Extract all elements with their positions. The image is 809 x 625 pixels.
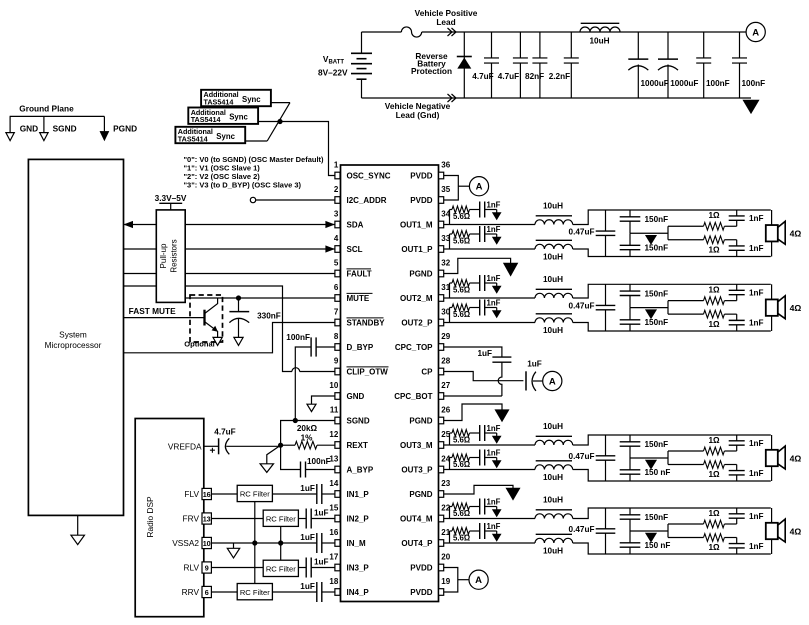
- ground SGND symbol: [43, 116, 45, 132]
- svg-text:1nF: 1nF: [749, 439, 764, 448]
- capacitor 4.7uF VREFDA: [204, 445, 219, 447]
- svg-text:10: 10: [203, 539, 211, 548]
- ground GND symbol: [9, 116, 11, 132]
- svg-text:5: 5: [334, 258, 339, 267]
- capacitor 82nF input: [539, 32, 541, 58]
- pin 32 PGND: [439, 270, 444, 277]
- wire OUT2_P to filter rail: [573, 323, 771, 332]
- pin 17 IN3_P: [335, 564, 340, 571]
- resistor 1ohm bottom channel 4: [667, 524, 669, 538]
- svg-text:10: 10: [329, 381, 338, 390]
- svg-text:VREFDA: VREFDA: [168, 441, 202, 451]
- svg-text:CPC_TOP: CPC_TOP: [395, 343, 433, 352]
- svg-text:OUT1_P: OUT1_P: [401, 245, 433, 254]
- svg-text:5.6Ω: 5.6Ω: [453, 460, 470, 469]
- capacitor 150nF bottom channel 4: [629, 531, 631, 543]
- capacitor 100nF bulk 3: [703, 32, 705, 58]
- pin 7 STANDBY: [335, 319, 340, 326]
- capacitor 1nF bottom channel 2: [736, 314, 738, 320]
- svg-text:1nF: 1nF: [749, 288, 764, 297]
- svg-text:FAULT: FAULT: [347, 270, 372, 279]
- svg-text:IN2_P: IN2_P: [347, 515, 370, 524]
- capacitor 1nF bottom channel 1: [736, 240, 738, 246]
- pin 26 PGND: [439, 417, 444, 424]
- svg-text:Pull-up: Pull-up: [159, 243, 168, 268]
- svg-text:IN4_P: IN4_P: [347, 588, 370, 597]
- additional TAS5414 box 1: [201, 90, 271, 106]
- pin 4 SCL: [335, 246, 340, 253]
- svg-text:4.7uF: 4.7uF: [214, 428, 235, 437]
- wire OUT4_M to inductor: [444, 518, 535, 520]
- svg-text:1nF: 1nF: [749, 469, 764, 478]
- svg-text:Sync: Sync: [242, 95, 261, 104]
- capacitor 0.47uF channel 2: [605, 284, 607, 305]
- svg-text:IN_M: IN_M: [347, 539, 366, 548]
- capacitor 150nF bottom channel 1: [629, 233, 631, 245]
- svg-text:7: 7: [334, 307, 339, 316]
- svg-text:150nF: 150nF: [645, 318, 669, 327]
- resistor 1ohm top channel 2: [668, 300, 704, 302]
- svg-text:3: 3: [334, 209, 339, 218]
- capacitor 150nF top channel 2: [629, 284, 631, 291]
- wire OUT1_M to filter rail: [573, 210, 771, 225]
- wire mid node channel 3: [630, 457, 668, 459]
- wire sync box2 to OSC_SYNC pin 1: [258, 122, 335, 176]
- resistor 5.6ohm zobel OUT1_M: [449, 210, 451, 225]
- resistor 5.6ohm zobel OUT4_P: [449, 531, 451, 543]
- svg-text:OUT4_P: OUT4_P: [401, 539, 433, 548]
- capacitor 1nF zobel OUT1_P: [470, 233, 480, 235]
- svg-text:6: 6: [205, 588, 209, 597]
- svg-text:4.7uF: 4.7uF: [472, 72, 493, 81]
- junction sync node: [277, 119, 282, 124]
- svg-text:Radio DSP: Radio DSP: [145, 496, 155, 538]
- additional TAS5414 box 2: [188, 108, 258, 124]
- capacitor 1nF zobel OUT4_P: [470, 530, 480, 532]
- capacitor 1nF zobel OUT2_M: [470, 282, 480, 284]
- svg-text:TAS5414: TAS5414: [204, 97, 234, 106]
- svg-text:SGND: SGND: [53, 123, 77, 133]
- battery VBATT: [361, 32, 363, 53]
- ground zobel OUT3_P: [496, 458, 498, 461]
- junction D_BYP cap to SGND: [293, 418, 298, 423]
- wire OUT3_M to filter rail: [573, 435, 771, 445]
- capacitor 1nF zobel OUT1_M: [470, 209, 480, 211]
- svg-text:A: A: [475, 575, 482, 586]
- svg-text:10uH: 10uH: [543, 202, 563, 211]
- pin 29 CPC_TOP: [439, 344, 444, 351]
- svg-text:Optional: Optional: [184, 340, 214, 349]
- ground zobel OUT1_P: [496, 234, 498, 237]
- svg-text:1000uF: 1000uF: [670, 79, 698, 88]
- wire FAST MUTE from microprocessor: [124, 317, 205, 319]
- pin 19 PVDD: [439, 589, 444, 596]
- svg-text:1nF: 1nF: [749, 512, 764, 521]
- svg-text:4Ω: 4Ω: [790, 453, 802, 463]
- radio DSP pin FRV 13: [202, 513, 211, 524]
- pin 5 FAULT: [335, 270, 340, 277]
- pin 11 SGND: [335, 417, 340, 424]
- ground mid node channel 1: [646, 235, 657, 244]
- inductor 10uH OUT1_M: [535, 220, 573, 225]
- svg-text:Sync: Sync: [216, 132, 235, 141]
- speaker 4ohm channel 2: [771, 284, 773, 299]
- wire OUT1_P to inductor: [444, 248, 535, 250]
- capacitor 1nF zobel OUT2_P: [470, 307, 480, 309]
- radio DSP pin RRV 6: [202, 586, 211, 597]
- svg-text:1nF: 1nF: [487, 225, 501, 234]
- wire RLV to RC filter: [211, 567, 263, 569]
- svg-text:23: 23: [441, 479, 450, 488]
- svg-text:1nF: 1nF: [487, 424, 501, 433]
- svg-text:150 nF: 150 nF: [645, 468, 671, 477]
- svg-text:1uF: 1uF: [300, 484, 315, 493]
- svg-text:A: A: [752, 27, 759, 38]
- svg-text:OUT3_P: OUT3_P: [401, 466, 433, 475]
- svg-text:PGND: PGND: [409, 490, 432, 499]
- svg-text:STANDBY: STANDBY: [347, 319, 386, 328]
- capacitor 150nF bottom channel 2: [629, 308, 631, 320]
- ground mid node channel 2: [646, 310, 657, 319]
- capacitor 1uF CPC: [444, 347, 502, 357]
- speaker 4ohm channel 1: [771, 210, 773, 225]
- svg-text:TAS5414: TAS5414: [191, 115, 221, 124]
- svg-text:4: 4: [334, 234, 339, 243]
- pin 27 CPC_BOT: [439, 393, 444, 400]
- op-amp U1 TAS5414 main IC body: [341, 165, 439, 602]
- additional TAS5414 box 3: [175, 127, 245, 143]
- wire OUT2_M to filter rail: [573, 284, 771, 298]
- svg-text:VSSA2: VSSA2: [172, 538, 199, 548]
- resistor 5.6ohm zobel OUT1_P: [449, 234, 451, 249]
- svg-text:0.47uF: 0.47uF: [569, 525, 595, 534]
- pin 9 CLIP_OTW: [335, 368, 340, 375]
- svg-text:150 nF: 150 nF: [645, 541, 671, 550]
- svg-text:0.47uF: 0.47uF: [569, 227, 595, 236]
- svg-text:"3": V3 (to D_BYP) (OSC Slave: "3": V3 (to D_BYP) (OSC Slave 3): [184, 181, 302, 190]
- resistor 5.6ohm zobel OUT3_M: [449, 433, 451, 445]
- inductor 10uH OUT2_M: [535, 293, 573, 298]
- svg-text:PVDD: PVDD: [410, 196, 432, 205]
- pin 2 I2C_ADDR: [335, 197, 340, 204]
- svg-text:1uF: 1uF: [477, 349, 492, 358]
- svg-text:IN1_P: IN1_P: [347, 490, 370, 499]
- wire RRV to RC filter: [211, 591, 237, 593]
- ground zobel OUT2_M: [496, 283, 498, 286]
- capacitor 4.7uF input 2: [519, 32, 521, 58]
- svg-text:9: 9: [205, 563, 209, 572]
- resistor 20k REXT: [281, 444, 295, 446]
- pin 8 D_BYP: [335, 344, 340, 351]
- svg-text:PVDD: PVDD: [410, 564, 432, 573]
- svg-text:CP: CP: [421, 368, 433, 377]
- ground zobel OUT4_P: [496, 531, 498, 534]
- svg-text:32: 32: [441, 258, 450, 267]
- wire CLIP_OTW microprocessor to pull-ups: [124, 285, 157, 287]
- speaker 4ohm channel 4: [771, 508, 773, 523]
- svg-text:82nF: 82nF: [525, 72, 544, 81]
- node A charge pump: [543, 371, 562, 390]
- node A PVDD bottom: [469, 570, 488, 589]
- radio DSP pin FLV 16: [202, 488, 211, 499]
- wire OUT3_P to inductor: [444, 469, 535, 471]
- wire PVDD pins 20 19 to node A: [444, 568, 458, 593]
- wire PVDD pins 36 35 to node A: [444, 176, 459, 201]
- wire FAULT pull-ups to pin 5: [185, 273, 335, 275]
- svg-text:PVDD: PVDD: [410, 172, 432, 181]
- svg-text:PGND: PGND: [409, 417, 432, 426]
- svg-text:14: 14: [329, 479, 338, 488]
- resistor 1ohm top channel 3: [668, 450, 704, 452]
- svg-text:OUT3_M: OUT3_M: [400, 441, 433, 450]
- svg-text:100nF: 100nF: [286, 333, 310, 342]
- svg-text:OUT4_M: OUT4_M: [400, 515, 433, 524]
- svg-text:FAST MUTE: FAST MUTE: [129, 306, 176, 316]
- capacitor 1000uF bulk 2: [667, 32, 669, 59]
- radio DSP box: [135, 419, 204, 617]
- svg-text:6: 6: [334, 283, 339, 292]
- svg-text:1Ω: 1Ω: [708, 509, 720, 518]
- svg-text:1nF: 1nF: [487, 498, 501, 507]
- svg-text:20: 20: [441, 552, 450, 561]
- svg-text:REXT: REXT: [347, 441, 368, 450]
- wire mid node channel 2: [630, 307, 668, 309]
- ground PGND pin 32: [444, 258, 511, 273]
- svg-text:150nF: 150nF: [645, 215, 669, 224]
- svg-text:10uH: 10uH: [543, 326, 563, 335]
- svg-text:SCL: SCL: [347, 245, 363, 254]
- pin 13 A_BYP: [335, 466, 340, 473]
- svg-text:20kΩ: 20kΩ: [297, 424, 318, 433]
- svg-text:PGND: PGND: [409, 270, 432, 279]
- ground PGND pin 23: [444, 485, 513, 494]
- wire RC filter common 1: [254, 502, 256, 584]
- pin 30 OUT2_P: [439, 319, 444, 326]
- svg-text:150nF: 150nF: [645, 440, 669, 449]
- speaker 4ohm channel 3: [771, 435, 773, 450]
- inductor 10uH OUT2_P: [535, 318, 573, 323]
- svg-text:1nF: 1nF: [487, 201, 501, 210]
- svg-text:1uF: 1uF: [314, 509, 329, 518]
- pin 31 OUT2_M: [439, 295, 444, 302]
- svg-text:1Ω: 1Ω: [708, 320, 720, 329]
- pin 1 OSC_SYNC: [335, 172, 340, 179]
- wire vehicle positive lead: [362, 31, 402, 33]
- capacitor 1nF zobel OUT3_M: [470, 432, 480, 434]
- svg-text:SGND: SGND: [347, 417, 370, 426]
- svg-text:PVDD: PVDD: [410, 588, 432, 597]
- svg-text:Resistors: Resistors: [170, 239, 179, 272]
- svg-text:RC Filter: RC Filter: [266, 565, 296, 574]
- ground emitter: [213, 337, 222, 345]
- svg-text:15: 15: [329, 503, 338, 512]
- wire mid node channel 1: [630, 232, 668, 234]
- pin 23 PGND: [439, 491, 444, 498]
- resistor 5.6ohm zobel OUT2_M: [449, 283, 451, 298]
- svg-text:10uH: 10uH: [543, 496, 563, 505]
- wire OUT4_P to inductor: [444, 542, 535, 544]
- svg-text:OUT2_P: OUT2_P: [401, 319, 433, 328]
- resistor 5.6ohm zobel OUT4_M: [449, 507, 451, 519]
- resistor 1ohm top channel 4: [668, 523, 704, 525]
- svg-text:5.6Ω: 5.6Ω: [453, 212, 470, 221]
- svg-text:10uH: 10uH: [589, 37, 609, 46]
- wire positive lead to input node: [422, 31, 747, 33]
- capacitor 1uF IN2_P: [298, 518, 305, 520]
- RC filter FLV: [237, 485, 272, 501]
- resistor 1ohm top channel 1: [668, 225, 704, 227]
- wire OUT3_M to inductor: [444, 444, 535, 446]
- svg-text:RC Filter: RC Filter: [266, 514, 296, 523]
- svg-text:IN3_P: IN3_P: [347, 564, 370, 573]
- svg-text:FRV: FRV: [183, 514, 200, 524]
- svg-text:5.6Ω: 5.6Ω: [453, 509, 470, 518]
- svg-text:1Ω: 1Ω: [708, 246, 720, 255]
- inductor 10uH OUT3_P: [535, 465, 573, 470]
- svg-text:GND: GND: [20, 123, 38, 133]
- svg-text:Ground Plane: Ground Plane: [19, 103, 74, 113]
- svg-text:RC Filter: RC Filter: [240, 588, 270, 597]
- svg-text:150nF: 150nF: [645, 289, 669, 298]
- svg-text:11: 11: [330, 405, 339, 414]
- svg-text:2.2nF: 2.2nF: [549, 72, 570, 81]
- net I2C_ADDR open terminal: [250, 197, 255, 202]
- capacitor 1nF bottom channel 4: [736, 538, 738, 544]
- inductor 10uH OUT4_P: [535, 538, 573, 543]
- svg-text:4Ω: 4Ω: [790, 303, 802, 313]
- pin 18 IN4_P: [335, 589, 340, 596]
- capacitor 1nF zobel OUT3_P: [470, 457, 480, 459]
- svg-text:330nF: 330nF: [257, 311, 281, 320]
- pin 15 IN2_P: [335, 515, 340, 522]
- radio DSP pin VSSA2 10: [202, 537, 211, 548]
- capacitor 1nF top channel 4: [736, 508, 738, 514]
- svg-text:SDA: SDA: [347, 221, 364, 230]
- system microprocessor box: [28, 159, 123, 515]
- node A supply: [746, 22, 765, 41]
- svg-text:CLIP_OTW: CLIP_OTW: [347, 368, 389, 377]
- svg-text:100nF: 100nF: [307, 457, 331, 466]
- svg-text:3.3V–5V: 3.3V–5V: [155, 193, 187, 203]
- capacitor 150nF bottom channel 3: [629, 458, 631, 470]
- svg-text:1Ω: 1Ω: [708, 543, 720, 552]
- pin 21 OUT4_P: [439, 540, 444, 547]
- svg-text:5.6Ω: 5.6Ω: [453, 534, 470, 543]
- ground zobel OUT4_M: [496, 507, 498, 510]
- pin 12 REXT: [335, 442, 340, 449]
- pin 22 OUT4_M: [439, 515, 444, 522]
- pin 10 GND: [335, 393, 340, 400]
- wire SCL microprocessor to pull-ups: [124, 248, 157, 250]
- ground REXT node: [267, 445, 281, 464]
- inductor 10uH OUT3_M: [535, 440, 573, 445]
- wire OUT4_P to filter rail: [573, 543, 771, 554]
- svg-text:1nF: 1nF: [487, 522, 501, 531]
- capacitor 330nF mute: [236, 295, 241, 300]
- svg-text:12: 12: [329, 430, 338, 439]
- capacitor 1nF top channel 3: [736, 435, 738, 441]
- svg-text:16: 16: [329, 528, 338, 537]
- svg-text:100nF: 100nF: [742, 79, 766, 88]
- capacitor 1uF IN1_P: [272, 493, 316, 495]
- wire SGND pin 11: [281, 421, 335, 446]
- wire VSSA2 to IN_M: [211, 542, 316, 544]
- svg-text:Microprocessor: Microprocessor: [45, 340, 102, 350]
- svg-text:Lead (Gnd): Lead (Gnd): [396, 110, 440, 120]
- svg-text:1nF: 1nF: [749, 214, 764, 223]
- capacitor 100nF A_BYP: [281, 445, 301, 469]
- svg-text:1: 1: [334, 160, 339, 169]
- capacitor 2.2nF input: [570, 32, 572, 58]
- svg-text:PGND: PGND: [113, 123, 137, 133]
- junction RC common 2: [278, 540, 283, 545]
- pin 14 IN1_P: [335, 491, 340, 498]
- RC filter FRV: [263, 510, 298, 526]
- svg-text:1Ω: 1Ω: [708, 285, 720, 294]
- svg-text:1uF: 1uF: [314, 558, 329, 567]
- capacitor 1000uF bulk 1: [637, 32, 639, 59]
- pull-up resistors box: [156, 210, 185, 303]
- svg-text:4Ω: 4Ω: [790, 526, 802, 536]
- svg-text:1nF: 1nF: [749, 244, 764, 253]
- svg-text:10uH: 10uH: [543, 546, 563, 555]
- wire CLIP_OTW pull-ups to pin 9: [185, 286, 292, 372]
- resistor 1ohm bottom channel 2: [667, 301, 669, 315]
- svg-text:CPC_BOT: CPC_BOT: [394, 392, 432, 401]
- svg-text:GND: GND: [347, 392, 365, 401]
- svg-text:OSC_SYNC: OSC_SYNC: [347, 172, 391, 181]
- fuse squiggle on positive lead: [401, 27, 421, 37]
- svg-text:16: 16: [203, 490, 211, 499]
- ground PGND symbol: [103, 116, 105, 131]
- pin 20 PVDD: [439, 564, 444, 571]
- svg-text:1nF: 1nF: [749, 319, 764, 328]
- svg-text:8: 8: [334, 332, 339, 341]
- wire SCL pull-ups to pin 4: [185, 248, 335, 250]
- capacitor 1uF IN_M: [316, 533, 318, 553]
- inductor 10uH OUT1_P: [535, 244, 573, 249]
- wire FLV to RC filter: [211, 493, 237, 495]
- ground VSSA2: [233, 543, 235, 548]
- svg-text:5.6Ω: 5.6Ω: [453, 436, 470, 445]
- capacitor 150nF top channel 1: [629, 210, 631, 217]
- ground zobel OUT3_M: [496, 433, 498, 436]
- svg-text:1nF: 1nF: [487, 449, 501, 458]
- wire OUT2_M to inductor: [444, 297, 535, 299]
- svg-text:1Ω: 1Ω: [708, 436, 720, 445]
- resistor 1ohm bottom channel 1: [667, 226, 669, 240]
- svg-text:5.6Ω: 5.6Ω: [453, 237, 470, 246]
- svg-text:17: 17: [329, 552, 338, 561]
- pin 28 CP: [439, 368, 444, 375]
- pin 33 OUT1_P: [439, 246, 444, 253]
- pin 36 PVDD: [439, 172, 444, 179]
- capacitor 1nF top channel 1: [736, 210, 738, 216]
- ground PGND pin 26: [444, 404, 502, 421]
- svg-text:1nF: 1nF: [749, 542, 764, 551]
- svg-text:Lead: Lead: [436, 17, 455, 27]
- svg-text:Protection: Protection: [411, 66, 452, 76]
- wire RC filter common 2: [280, 526, 282, 560]
- svg-text:27: 27: [441, 381, 450, 390]
- svg-text:Sync: Sync: [229, 113, 248, 122]
- capacitor 1nF bottom channel 3: [736, 465, 738, 471]
- wire OUT4_M to filter rail: [573, 508, 771, 519]
- svg-text:1uF: 1uF: [300, 533, 315, 542]
- svg-text:5.6Ω: 5.6Ω: [453, 310, 470, 319]
- junction REXT node: [278, 443, 283, 448]
- wire OUT2_P to inductor: [444, 322, 535, 324]
